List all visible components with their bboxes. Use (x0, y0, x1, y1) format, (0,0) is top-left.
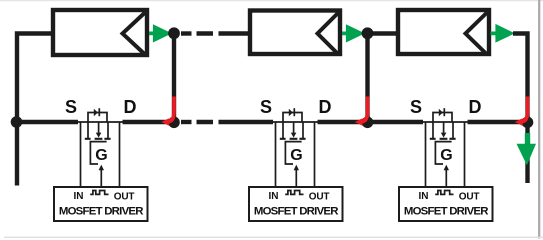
PFN box U3 (398, 10, 489, 54)
Q2 source stub (282, 122, 284, 138)
body diode D3 triangle (439, 109, 443, 116)
Q1 gate electrode (90, 142, 106, 164)
wire into box U2 (219, 31, 252, 35)
red current arrow output (519, 97, 528, 123)
wire gate drive (295, 169, 297, 187)
wire drain-side lead down to driver (314, 122, 316, 186)
bus wire to Q2 source (219, 120, 274, 124)
wire output corner down right side (513, 34, 528, 184)
thin wire through Q2 (272, 121, 318, 123)
Q3 source stub (432, 122, 434, 138)
svg-text:MOSFET DRIVER: MOSFET DRIVER (404, 206, 488, 218)
node A (top junction stage1) (168, 27, 180, 39)
wire drop stage2 (node B to bus) (365, 36, 369, 122)
green output arrow of U3 (491, 24, 515, 43)
wire source lead down to driver (275, 122, 277, 186)
Q2 bulk stub (293, 122, 295, 134)
Q3 drain stub (452, 122, 454, 138)
PFN box U1 (53, 10, 147, 55)
svg-text:S: S (260, 97, 272, 117)
stage 2 switch cell: MOSFET Q2 with driver A2 (249, 97, 343, 221)
Q1 drain stub (107, 122, 109, 138)
Q3 gate electrode (435, 142, 451, 164)
svg-text:S: S (65, 97, 77, 117)
svg-text:D: D (124, 97, 137, 117)
Q3 drain bar (449, 138, 455, 140)
bus wire Q2 drain to node E (318, 120, 368, 124)
MOSFET driver box A1 (54, 187, 148, 221)
gate drive arrowhead (99, 165, 104, 171)
red arrowhead stage1 (161, 118, 169, 126)
MOSFET driver box A2 (249, 187, 343, 221)
svg-text:MOSFET DRIVER: MOSFET DRIVER (59, 206, 143, 218)
Q1 source bar (85, 138, 91, 140)
green output arrow of U1 (149, 24, 172, 42)
svg-text:OUT: OUT (309, 191, 330, 202)
wire from PFN box1 left to left rail corner (17, 34, 53, 186)
Q2 bulk arrowhead (291, 133, 297, 138)
Q3 bulk arrowhead (441, 133, 447, 138)
bus dash (197, 120, 214, 124)
svg-text:D: D (469, 97, 482, 117)
chevron inside U1 (123, 13, 146, 55)
PFN box U2 (250, 11, 340, 55)
wire drain-side lead down to driver (119, 122, 121, 186)
red current arrow stage1 (166, 97, 175, 123)
body diode D3 cathode bar (443, 108, 445, 116)
wire gate drive (445, 169, 447, 187)
bus wire left rail to Q1 source (17, 120, 78, 124)
thin wire through Q3 (422, 121, 468, 123)
pulse waveform glyph (285, 191, 303, 195)
wire drain-side lead down to driver (464, 122, 466, 186)
gate drive arrowhead (294, 165, 299, 171)
MOSFET driver box A3 (399, 187, 493, 221)
thin wire through Q1 (77, 121, 123, 123)
chevron inside U3 (466, 13, 488, 55)
node C (left rail / bus junction) (11, 116, 23, 128)
Q3 bulk stub (443, 122, 445, 134)
body diode D1 cathode bar (98, 108, 100, 116)
green output arrow down (517, 133, 537, 165)
wire drop stage1 (node A to bus) (172, 36, 176, 122)
body diode branch wire (88, 113, 107, 123)
red current arrow stage2 (359, 97, 368, 123)
green output arrow of U2 (342, 24, 365, 42)
Q1 bulk arrowhead (96, 133, 102, 138)
Q2 drain bar (299, 138, 305, 140)
red arrowhead output (515, 118, 523, 126)
bus wire to Q3 source (368, 120, 424, 124)
dashed bus wire (181, 120, 192, 124)
Q2 source bar (280, 138, 286, 140)
Q1 bulk stub (98, 122, 100, 134)
Q1 drain bar (104, 138, 110, 140)
node F (bus junction output) (522, 117, 534, 129)
stage 3 switch cell: MOSFET Q3 with driver A3 (399, 97, 493, 221)
wire source lead down to driver (80, 122, 82, 186)
Q3 channel bar (440, 138, 448, 140)
svg-text:G: G (440, 147, 452, 164)
svg-text:S: S (410, 97, 422, 117)
svg-text:OUT: OUT (459, 191, 480, 202)
pulse waveform glyph (90, 191, 108, 195)
gate drive arrowhead (444, 165, 449, 171)
node D (bus junction stage1) (168, 117, 180, 129)
Q1 channel bar (95, 138, 103, 140)
bus wire Q3 drain to node F (468, 120, 528, 124)
svg-text:G: G (290, 147, 302, 164)
red arrowhead stage2 (355, 118, 363, 126)
svg-text:D: D (319, 97, 332, 117)
wire dash (197, 31, 214, 35)
Q3 source bar (430, 138, 436, 140)
svg-text:IN: IN (74, 191, 84, 202)
bus wire Q1 drain to node D (123, 120, 175, 124)
pulse waveform glyph (435, 191, 453, 195)
body diode branch wire (283, 113, 302, 123)
body diode D1 triangle (94, 109, 98, 116)
Q2 channel bar (290, 138, 298, 140)
Q2 drain stub (302, 122, 304, 138)
body diode D2 triangle (289, 109, 293, 116)
node B (top junction stage2) (362, 27, 374, 39)
svg-text:MOSFET DRIVER: MOSFET DRIVER (254, 206, 338, 218)
svg-text:OUT: OUT (114, 191, 135, 202)
dashed wire top between stage1 and stage2 (181, 31, 192, 35)
svg-text:IN: IN (419, 191, 429, 202)
svg-text:G: G (95, 147, 107, 164)
wire source lead down to driver (425, 122, 427, 186)
node E (bus junction stage2) (362, 117, 374, 129)
svg-text:IN: IN (269, 191, 279, 202)
body diode D2 cathode bar (293, 108, 295, 116)
Q2 gate electrode (285, 142, 301, 164)
wire gate drive (100, 169, 102, 187)
body diode branch wire (433, 113, 452, 123)
chevron inside U2 (318, 13, 339, 54)
stage 1 switch cell: MOSFET Q1 with driver A1 (54, 97, 148, 221)
wire from node B to box U3 (368, 31, 400, 35)
Q1 source stub (87, 122, 89, 138)
